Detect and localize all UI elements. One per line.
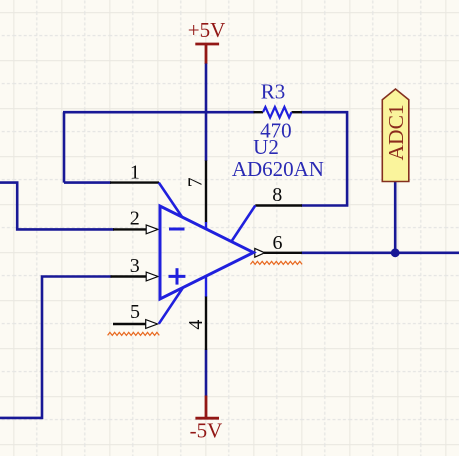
op-amp U2 pin 6 lead: [264, 252, 302, 254]
svg-text:4: 4: [185, 320, 207, 330]
svg-text:5: 5: [130, 301, 140, 323]
svg-text:6: 6: [273, 232, 283, 254]
op-amp U2 pin 8 lead: [255, 204, 302, 206]
op-amp U2 pin 4 lead black: [205, 297, 207, 351]
op-amp U2 pin 8 diagonal: [231, 206, 255, 242]
op-amp U2 pin 1 diagonal: [159, 183, 182, 217]
svg-text:3: 3: [130, 255, 140, 277]
svg-text:R3: R3: [261, 80, 286, 104]
error squiggle (pin 6 output): [250, 261, 302, 264]
power port +5V: [188, 18, 226, 64]
wire feedback top horizontal: [63, 111, 255, 114]
op-amp U2 pin 1 lead: [110, 181, 159, 183]
pin 2 arrow: [146, 225, 158, 234]
error squiggle (pin 5 no connect): [108, 332, 160, 335]
op-amp non-inverting input plus: [169, 268, 186, 284]
svg-text:7: 7: [185, 177, 207, 187]
op-amp U2 pin 2 lead: [113, 228, 147, 230]
wire feedback left vertical: [63, 112, 66, 182]
svg-text:2: 2: [130, 207, 140, 229]
op-amp U2 pin 4 lead: [205, 276, 207, 298]
wire to pin 2: [0, 183, 114, 230]
svg-text:+5V: +5V: [188, 18, 226, 42]
pin 3 arrow: [146, 272, 158, 281]
wire +5V to pin 7: [205, 64, 208, 162]
pin 5 arrow: [146, 320, 158, 329]
op-amp U2 triangle body: [160, 206, 254, 299]
power port -5V: [190, 396, 223, 443]
pin 6 arrow: [255, 248, 265, 257]
wire to pin 1: [64, 181, 111, 184]
wire pin 4 to -5V: [205, 350, 208, 397]
svg-text:U2: U2: [253, 135, 279, 159]
svg-text:-5V: -5V: [190, 419, 223, 443]
op-amp U2 pin 3 lead: [111, 275, 147, 277]
op-amp U2 pin 5 diagonal: [159, 288, 183, 324]
junction dot: [391, 248, 400, 257]
port ADC1: [382, 89, 409, 182]
svg-text:AD620AN: AD620AN: [232, 157, 324, 181]
wire R3 right to corner: [301, 112, 347, 205]
resistor R3: [254, 107, 303, 118]
svg-text:8: 8: [272, 184, 282, 206]
op-amp inverting input minus: [169, 228, 185, 231]
op-amp U2 pin 7 stub: [205, 222, 207, 229]
op-amp U2 pin 5 lead: [113, 323, 146, 325]
wire output to right edge: [301, 252, 459, 255]
op-amp U2 pin 7 lead: [205, 161, 207, 223]
svg-text:1: 1: [130, 161, 140, 183]
wire to pin 3: [0, 277, 112, 418]
svg-text:ADC1: ADC1: [384, 104, 408, 160]
wire ADC1 to output net: [394, 181, 397, 253]
